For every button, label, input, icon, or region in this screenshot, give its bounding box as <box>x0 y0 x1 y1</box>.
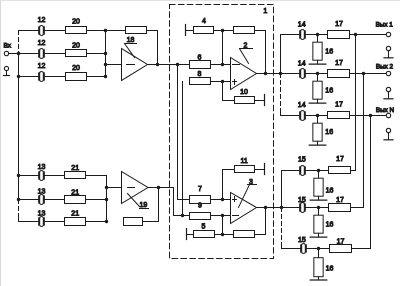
svg-text:20: 20 <box>72 65 80 72</box>
svg-text:15: 15 <box>298 156 306 163</box>
svg-text:13: 13 <box>38 164 46 171</box>
svg-text:17: 17 <box>337 238 345 245</box>
svg-text:15: 15 <box>298 237 306 244</box>
svg-text:8: 8 <box>198 71 202 78</box>
svg-text:14: 14 <box>298 61 306 68</box>
svg-text:20: 20 <box>72 18 80 25</box>
svg-text:1: 1 <box>263 8 267 15</box>
svg-text:17: 17 <box>335 60 343 67</box>
svg-text:17: 17 <box>336 156 344 163</box>
svg-text:13: 13 <box>38 210 46 217</box>
svg-text:16: 16 <box>325 88 333 95</box>
svg-text:Вых N: Вых N <box>376 107 395 114</box>
svg-text:16: 16 <box>326 221 334 228</box>
svg-text:11: 11 <box>240 158 247 165</box>
svg-text:13: 13 <box>38 189 46 196</box>
svg-text:5: 5 <box>202 223 206 230</box>
svg-text:12: 12 <box>38 63 46 70</box>
svg-text:10: 10 <box>240 89 248 96</box>
svg-text:14: 14 <box>298 102 306 109</box>
svg-text:16: 16 <box>326 188 334 195</box>
svg-text:17: 17 <box>336 197 344 204</box>
svg-text:15: 15 <box>298 197 306 204</box>
svg-text:21: 21 <box>71 190 79 197</box>
svg-text:12: 12 <box>38 40 46 47</box>
svg-text:21: 21 <box>71 165 79 172</box>
svg-text:14: 14 <box>298 21 306 28</box>
svg-text:16: 16 <box>325 129 333 136</box>
svg-text:Вых 2: Вых 2 <box>376 64 394 71</box>
svg-text:16: 16 <box>326 266 334 273</box>
svg-text:16: 16 <box>325 49 333 56</box>
svg-text:9: 9 <box>198 202 202 209</box>
svg-text:17: 17 <box>335 102 343 109</box>
svg-text:21: 21 <box>71 211 79 218</box>
svg-text:6: 6 <box>198 55 202 62</box>
svg-text:12: 12 <box>38 17 46 24</box>
svg-text:Вх: Вх <box>4 43 12 50</box>
svg-text:20: 20 <box>72 42 80 49</box>
svg-text:4: 4 <box>202 18 206 25</box>
svg-text:Вых 1: Вых 1 <box>376 21 394 28</box>
svg-text:7: 7 <box>198 186 202 193</box>
svg-text:17: 17 <box>335 21 343 28</box>
